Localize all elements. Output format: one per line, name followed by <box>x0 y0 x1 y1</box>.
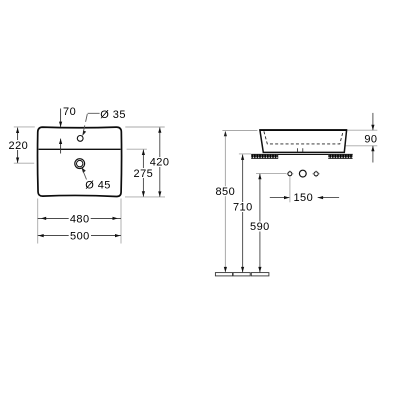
svg-text:Ø 35: Ø 35 <box>100 109 126 121</box>
svg-text:90: 90 <box>364 133 377 145</box>
svg-text:850: 850 <box>215 186 235 198</box>
svg-text:70: 70 <box>63 106 76 118</box>
svg-text:480: 480 <box>70 213 90 225</box>
svg-text:590: 590 <box>250 221 270 233</box>
svg-text:275: 275 <box>134 168 154 180</box>
svg-text:710: 710 <box>233 202 253 214</box>
svg-text:500: 500 <box>70 231 90 243</box>
svg-text:220: 220 <box>9 140 29 152</box>
svg-text:Ø 45: Ø 45 <box>85 179 111 191</box>
svg-text:150: 150 <box>293 192 313 204</box>
